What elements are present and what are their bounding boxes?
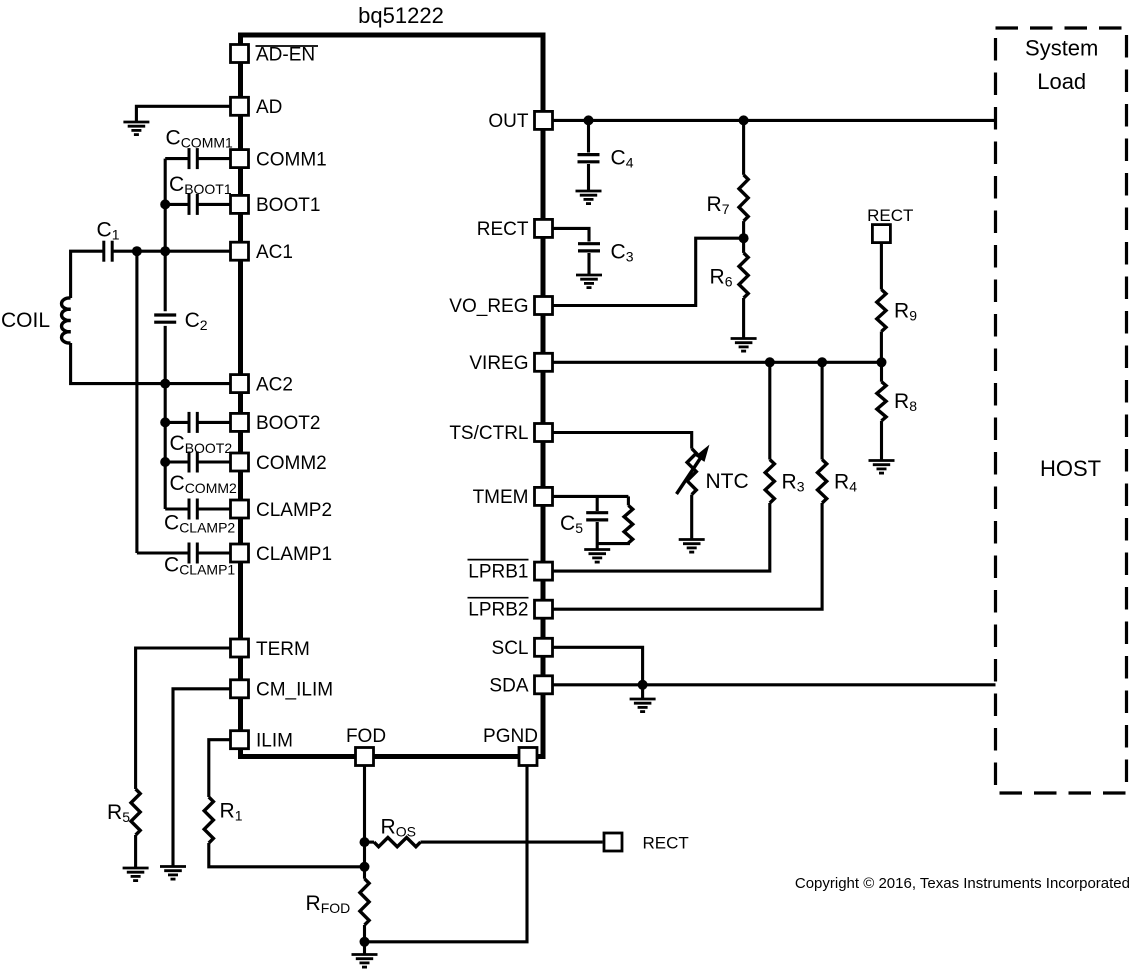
inductor COIL label <box>1 309 50 332</box>
pin TS/CTRL <box>449 423 552 444</box>
wire NTC to ground <box>690 495 693 539</box>
svg-text:CLAMP1: CLAMP1 <box>179 562 235 578</box>
resistor ROS label <box>381 816 416 840</box>
thermistor NTC arrow <box>677 446 709 494</box>
svg-text:BOOT1: BOOT1 <box>184 181 232 197</box>
resistor R4 label <box>834 471 857 495</box>
svg-text:3: 3 <box>626 249 634 265</box>
svg-text:6: 6 <box>725 274 733 290</box>
capacitor C1 <box>104 241 112 262</box>
wire C4 to ground <box>587 164 590 191</box>
svg-text:TERM: TERM <box>256 639 310 660</box>
resistor R9 label <box>894 300 917 324</box>
svg-text:R: R <box>782 471 797 494</box>
node RFOD-PGND junction <box>360 937 370 947</box>
svg-text:VIREG: VIREG <box>469 353 528 374</box>
ground (R5) <box>123 868 149 881</box>
capacitor C2 value label <box>185 309 208 333</box>
svg-text:7: 7 <box>722 201 730 217</box>
wire CCLAMP2 to AC2 net <box>165 507 189 510</box>
IC U1 name label bq51222 <box>358 3 444 28</box>
svg-text:RECT: RECT <box>867 206 913 225</box>
pin AD <box>231 97 283 118</box>
svg-text:C: C <box>164 554 179 577</box>
pin VIREG <box>469 353 552 374</box>
wire LPRB1 to R3 <box>554 503 770 571</box>
wire LPRB2 to R4 <box>554 503 823 609</box>
pin ILIM <box>231 731 293 752</box>
svg-text:4: 4 <box>626 155 634 171</box>
wire COMM2 pin to CCOMM2 <box>199 460 231 463</box>
wire TMEM bus <box>554 495 629 498</box>
pin TMEM <box>473 487 553 508</box>
svg-text:AC2: AC2 <box>256 374 293 395</box>
ground (CM_ILIM) <box>160 867 186 880</box>
wire CCOMM1 to AC1 net <box>165 157 189 160</box>
svg-text:R: R <box>894 390 909 413</box>
svg-text:R: R <box>710 266 725 289</box>
capacitor CCLAMP2 value label <box>164 512 235 536</box>
node SCL-SDA junction <box>638 680 648 690</box>
resistor R5 <box>131 789 140 835</box>
capacitor C2 <box>154 315 176 322</box>
svg-text:1: 1 <box>235 808 243 824</box>
svg-text:R: R <box>834 471 849 494</box>
svg-text:R: R <box>306 892 321 915</box>
svg-text:3: 3 <box>797 479 805 495</box>
wire CLAMP1 pin to CCLAMP1 <box>199 551 231 554</box>
terminal RECT (bottom) label <box>643 834 689 853</box>
terminal RECT (top) label <box>867 206 913 225</box>
capacitor CCOMM2 <box>189 452 197 473</box>
wire TMEM to C5 <box>596 496 599 511</box>
wire OUT to C4 <box>587 120 590 152</box>
svg-text:C: C <box>164 512 179 535</box>
wire C3 to ground <box>587 253 590 275</box>
resistor RFOD <box>360 879 369 925</box>
resistor R5 label <box>107 801 130 825</box>
resistor R6 label <box>710 266 733 290</box>
capacitor CBOOT2 <box>189 412 197 433</box>
svg-text:SDA: SDA <box>489 675 528 696</box>
wire OUT to R7 <box>742 120 745 174</box>
svg-text:BOOT2: BOOT2 <box>256 413 320 434</box>
pin BOOT1 <box>231 195 321 216</box>
wire C1 to COIL top <box>71 251 104 298</box>
svg-text:C: C <box>170 432 185 455</box>
pin CM_ILIM <box>231 680 334 701</box>
wire VO_REG to R6/R7 node <box>554 238 744 305</box>
svg-text:TMEM: TMEM <box>473 487 529 508</box>
capacitor C3 value label <box>611 241 634 265</box>
svg-text:R: R <box>107 801 122 824</box>
wire R4 to VIREG <box>821 362 824 459</box>
capacitor CCLAMP1 <box>189 543 197 564</box>
wire C5 to ground <box>596 522 599 549</box>
HOST label <box>1040 456 1101 481</box>
resistor RFOD label <box>306 892 351 916</box>
svg-text:BOOT1: BOOT1 <box>256 195 320 216</box>
copyright notice <box>795 875 1130 892</box>
wire RECT pin to C3 <box>554 228 590 241</box>
svg-text:COMM1: COMM1 <box>181 134 233 150</box>
node FOD-ROS junction <box>360 837 370 847</box>
System Load label <box>1025 36 1098 95</box>
svg-text:C: C <box>185 309 200 332</box>
svg-text:TS/CTRL: TS/CTRL <box>449 423 528 444</box>
capacitor CCOMM1 value label <box>166 126 234 150</box>
svg-text:bq51222: bq51222 <box>358 3 444 28</box>
svg-text:4: 4 <box>849 479 857 495</box>
capacitor CBOOT1 value label <box>169 173 232 197</box>
capacitor CBOOT1 <box>189 194 197 215</box>
wire R9 to VIREG <box>880 332 883 363</box>
resistor R6 <box>739 253 748 298</box>
IC U1 bq51222 body outline <box>241 35 544 757</box>
svg-text:C: C <box>166 126 181 149</box>
svg-text:PGND: PGND <box>483 726 538 747</box>
wire SCL to SDA net <box>554 647 643 685</box>
wire TMEM resistor to C5 bottom <box>597 541 628 545</box>
resistor R3 <box>765 460 774 504</box>
wire R1 to FOD net <box>209 843 365 867</box>
svg-text:HOST: HOST <box>1040 456 1101 481</box>
svg-text:RECT: RECT <box>643 834 689 853</box>
svg-text:LPRB2: LPRB2 <box>468 600 528 621</box>
node FOD-R1 junction <box>360 862 370 872</box>
wire RFOD to ground <box>363 925 366 954</box>
resistor ROS <box>374 838 421 847</box>
svg-text:C: C <box>170 472 185 495</box>
node VIREG-R8-R9 junction <box>877 357 887 367</box>
svg-text:COMM2: COMM2 <box>185 480 237 496</box>
wire CBOOT2 to AC2 net <box>165 421 189 424</box>
wire BOOT2 pin to CBOOT2 <box>199 421 231 424</box>
pin COMM1 <box>231 149 327 170</box>
wire TERM pin to R5 <box>136 648 230 789</box>
capacitor CCOMM1 <box>189 148 197 169</box>
svg-text:R: R <box>381 816 396 839</box>
wire AC1 to CCLAMP1 vertical <box>135 251 138 553</box>
ground (NTC) <box>679 540 705 553</box>
pin PGND <box>483 726 538 766</box>
capacitor CCLAMP1 value label <box>164 554 235 578</box>
pin TERM <box>231 639 310 660</box>
svg-text:VO_REG: VO_REG <box>449 296 528 317</box>
resistor R1 label <box>220 800 243 824</box>
node VIREG-R4 junction <box>817 357 827 367</box>
wire R3 to VIREG <box>768 362 771 459</box>
wire CCOMM2 to AC2 net <box>165 460 189 463</box>
svg-text:COMM2: COMM2 <box>256 453 327 474</box>
System Load / HOST dashed box <box>996 28 1127 793</box>
wire OUT to System Load <box>554 119 996 122</box>
svg-text:System: System <box>1025 36 1098 61</box>
resistor RTMEM (parallel with C5) <box>624 505 633 543</box>
pin SDA <box>489 675 552 696</box>
capacitor CCOMM2 value label <box>170 472 238 496</box>
pin AC1 <box>231 242 293 263</box>
pin OUT <box>488 111 552 132</box>
ground (C4) <box>576 191 602 204</box>
svg-text:RECT: RECT <box>477 219 529 240</box>
svg-text:Copyright © 2016, Texas Instru: Copyright © 2016, Texas Instruments Inco… <box>795 875 1130 892</box>
wire ROS left <box>365 841 375 844</box>
ground (C5) <box>584 550 610 563</box>
node AC2 junction <box>160 379 170 389</box>
svg-text:5: 5 <box>575 520 583 536</box>
resistor R3 label <box>782 471 805 495</box>
svg-text:R: R <box>707 193 722 216</box>
wire BOOT1 pin to CBOOT1 <box>199 203 231 206</box>
svg-text:AD-EN: AD-EN <box>256 44 315 65</box>
svg-text:C: C <box>611 241 626 264</box>
capacitor C1 value label <box>97 219 120 243</box>
svg-text:5: 5 <box>122 809 130 825</box>
wire R5 to ground <box>134 835 137 867</box>
wire SDA to HOST <box>554 683 996 686</box>
terminal RECT (bottom) <box>604 833 622 851</box>
wire R8 top <box>880 362 883 381</box>
svg-text:CLAMP2: CLAMP2 <box>179 520 235 536</box>
pin COMM2 <box>231 453 327 474</box>
wire SDA net to ground <box>641 685 644 698</box>
pin AD-EN <box>231 44 319 65</box>
ground (AD pin) <box>123 122 149 135</box>
wire AC1 pin to C1 <box>113 250 230 253</box>
capacitor C5 value label <box>560 512 583 536</box>
wire VIREG bus <box>554 361 882 364</box>
node C1-CLAMP1 junction <box>132 246 142 256</box>
ground (SDA) <box>630 699 656 712</box>
svg-text:COMM1: COMM1 <box>256 149 327 170</box>
pin SCL <box>492 638 553 659</box>
wire AD to ground <box>136 106 230 121</box>
thermistor NTC label <box>706 470 749 493</box>
ground (C3) <box>576 275 602 288</box>
wire ROS to RECT terminal <box>421 841 603 844</box>
node VIREG-R3 junction <box>765 357 775 367</box>
node AC1 junction <box>160 246 170 256</box>
svg-text:C: C <box>611 147 626 170</box>
svg-text:1: 1 <box>112 227 120 243</box>
thermistor NTC <box>687 449 696 495</box>
wire R6 top <box>742 238 745 253</box>
resistor R7 <box>739 175 748 221</box>
resistor R9 <box>877 290 886 332</box>
svg-text:AC1: AC1 <box>256 242 293 263</box>
wire TS/CTRL to NTC <box>554 433 692 449</box>
svg-text:C: C <box>169 173 184 196</box>
resistor R8 label <box>894 390 917 414</box>
svg-text:R: R <box>220 800 235 823</box>
capacitor C4 value label <box>611 147 634 171</box>
resistor R8 <box>877 382 886 421</box>
svg-text:C: C <box>560 512 575 535</box>
pin AC2 <box>231 374 293 395</box>
capacitor C3 <box>578 244 600 251</box>
pin FOD <box>346 726 386 766</box>
node CBOOT1-AC1 junction <box>160 199 170 209</box>
wire R8 to ground <box>880 421 883 460</box>
capacitor CCLAMP2 <box>189 499 197 520</box>
svg-text:C: C <box>97 219 112 242</box>
svg-text:FOD: FOD <box>321 900 351 916</box>
svg-text:2: 2 <box>200 317 208 333</box>
wire CM_ILIM pin to ground <box>173 689 230 866</box>
wire AC1/AC2 vertical net with C2 inline <box>164 159 167 509</box>
capacitor C5 <box>586 513 608 520</box>
wire CCLAMP1 to AC1 net <box>137 551 189 554</box>
ground (R8) <box>869 461 895 474</box>
capacitor C4 <box>578 155 600 162</box>
resistor R1 <box>204 797 213 843</box>
pin VO_REG <box>449 296 552 317</box>
capacitor CBOOT2 value label <box>170 432 233 456</box>
svg-text:COIL: COIL <box>1 309 50 332</box>
node CBOOT2 junction <box>160 417 170 427</box>
wire PGND to RFOD net <box>365 765 528 942</box>
svg-text:SCL: SCL <box>492 638 529 659</box>
wire TMEM resistor top <box>627 496 630 505</box>
svg-text:8: 8 <box>909 398 917 414</box>
svg-text:CM_ILIM: CM_ILIM <box>256 680 333 701</box>
svg-text:Load: Load <box>1037 69 1086 94</box>
pin RECT <box>477 219 553 240</box>
resistor R4 <box>818 460 827 504</box>
ground (R6) <box>731 339 757 352</box>
svg-text:BOOT2: BOOT2 <box>185 440 233 456</box>
svg-text:R: R <box>894 300 909 323</box>
terminal RECT (top) <box>872 225 890 243</box>
wire FOD pin down <box>363 765 366 879</box>
svg-text:LPRB1: LPRB1 <box>468 562 528 583</box>
svg-text:OUT: OUT <box>488 111 529 132</box>
wire CLAMP2 pin to CCLAMP2 <box>199 507 231 510</box>
svg-text:CLAMP2: CLAMP2 <box>256 500 332 521</box>
svg-text:FOD: FOD <box>346 726 386 747</box>
inductor COIL <box>62 298 71 343</box>
svg-text:CLAMP1: CLAMP1 <box>256 544 332 565</box>
wire COIL bottom to AC2 <box>71 343 230 384</box>
svg-text:OS: OS <box>396 824 416 840</box>
wire R6 to ground <box>742 298 745 338</box>
resistor R7 label <box>707 193 730 217</box>
wire RECT terminal to R9 <box>880 244 883 290</box>
svg-text:NTC: NTC <box>706 470 749 493</box>
node CCOMM2 junction <box>160 457 170 467</box>
wire ILIM pin to R1 <box>209 740 230 797</box>
node OUT-C4 junction <box>584 115 594 125</box>
pin LPRB2 <box>468 598 553 621</box>
pin CLAMP1 <box>231 544 333 565</box>
node R7-R6-VO_REG junction <box>739 233 749 243</box>
wire R7 to R6 node <box>742 221 745 238</box>
pin CLAMP2 <box>231 500 333 521</box>
wire CBOOT1 to AC1 net <box>165 203 189 206</box>
pin BOOT2 <box>231 413 321 434</box>
pin LPRB1 <box>468 560 553 583</box>
svg-text:AD: AD <box>256 97 282 118</box>
svg-text:9: 9 <box>909 308 917 324</box>
svg-text:ILIM: ILIM <box>256 731 293 752</box>
node OUT-R7 junction <box>739 115 749 125</box>
wire COMM1 pin to CCOMM1 <box>199 157 231 160</box>
ground (RFOD) <box>352 955 378 968</box>
